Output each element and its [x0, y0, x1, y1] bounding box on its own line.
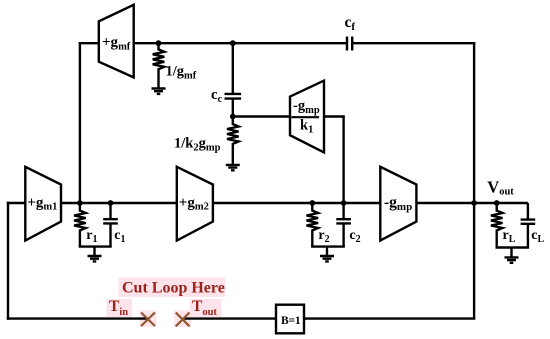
node dot cc top junction	[230, 40, 236, 46]
highlight behind Tin	[107, 299, 133, 317]
op-amp gm1 trapezoid	[25, 167, 61, 241]
capacitor c2	[336, 203, 351, 247]
wire gmf input horizontal	[79, 42, 99, 44]
op-amp -gmp trapezoid	[380, 167, 416, 241]
resistor 1/k2gmp	[227, 117, 239, 164]
highlight behind X1	[140, 311, 157, 328]
ground below 1/gmf	[152, 89, 166, 94]
wire mid bus gmp to cL	[416, 202, 528, 204]
wire r1 c1 join	[79, 245, 112, 247]
wire right vertical	[473, 42, 475, 319]
op-amp gmf trapezoid	[99, 5, 134, 78]
resistor r1	[74, 203, 86, 247]
capacitor cL	[521, 203, 536, 248]
wire cc top stub	[232, 43, 234, 94]
capacitor cc	[225, 94, 242, 117]
cut mark X2	[176, 313, 190, 327]
node dot node1	[77, 200, 83, 206]
wire input left	[7, 202, 26, 204]
node dot cc bottom node	[230, 114, 236, 120]
wire top bus gmf output to cf	[134, 42, 347, 44]
node dot c2	[341, 200, 347, 206]
wire rL cL join	[496, 246, 530, 248]
op-amp -gmp/k1 trapezoid	[290, 81, 324, 153]
ground below 1/k2gmp	[226, 165, 240, 170]
wire left vertical	[7, 202, 9, 320]
wire k1 output	[324, 115, 345, 117]
ground node2	[320, 247, 334, 262]
wire mid bus gm1 to gm2	[61, 202, 177, 204]
wire bottom bus resumes at cut X2	[183, 317, 276, 319]
ground output node	[505, 248, 519, 263]
wire bottom bus left (ends at cut X1)	[7, 317, 148, 319]
block B=1 box	[276, 305, 304, 334]
wire mid bus gm2 to gmp	[213, 202, 380, 204]
highlight behind X2	[174, 311, 191, 328]
resistor 1/gmf	[153, 43, 165, 87]
svg-text:B=1: B=1	[281, 315, 301, 327]
wire top bus cf to right corner	[352, 42, 475, 44]
capacitor c1	[103, 203, 118, 247]
wire cc node to k1 block	[233, 115, 290, 117]
highlight behind Cut Loop Here	[118, 277, 225, 297]
ground node1	[88, 247, 102, 262]
op-amp gm2 trapezoid	[177, 167, 213, 241]
svg-text:Cut Loop Here: Cut Loop Here	[122, 279, 225, 296]
node dot r2	[309, 200, 315, 206]
node dot c1	[108, 200, 114, 206]
node dot rL	[494, 200, 500, 206]
node dot 1/gmf junction	[156, 40, 162, 46]
wire k1 output vertical down	[342, 117, 344, 204]
resistor r2	[307, 203, 319, 247]
wire r2 c2 join	[311, 245, 345, 247]
wire bottom bus right	[304, 317, 475, 319]
node dot Vout	[471, 200, 477, 206]
resistor rL	[491, 203, 503, 248]
capacitor cf	[347, 37, 352, 51]
highlight behind Tout	[190, 299, 222, 317]
cut mark X1	[141, 313, 155, 327]
wire node1 vertical	[79, 42, 81, 203]
fraction bar k1	[291, 116, 319, 118]
